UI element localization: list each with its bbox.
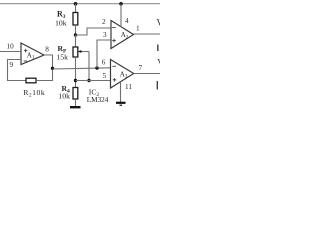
wire R4 bottom to ground bbox=[75, 99, 77, 106]
wire A1 output node to A3 pin6 bbox=[53, 68, 112, 69]
A2 minus sign bbox=[112, 27, 116, 29]
wire R3 bottom to node X bbox=[75, 25, 77, 35]
svg-text:10k: 10k bbox=[55, 18, 67, 27]
RP wiper arrow bbox=[80, 51, 89, 53]
svg-text:11: 11 bbox=[125, 83, 132, 91]
resistor R3 bbox=[73, 13, 78, 26]
svg-text:1: 1 bbox=[136, 25, 140, 33]
svg-text:LM324: LM324 bbox=[87, 96, 109, 104]
wire R2 to A1 output node bbox=[36, 68, 53, 80]
svg-text:2: 2 bbox=[102, 18, 106, 26]
wire A2 power pin 4 bbox=[120, 4, 122, 27]
potentiometer RP body bbox=[73, 47, 78, 57]
svg-text:5: 5 bbox=[103, 72, 107, 80]
junction RP/R4 node to pin5 wire bbox=[74, 79, 77, 82]
resistor R4 bbox=[73, 88, 78, 100]
svg-text:7: 7 bbox=[139, 64, 143, 72]
svg-text:V: V bbox=[157, 18, 161, 28]
wire pin6 node up to A2 pin3 bbox=[97, 40, 111, 68]
wire A3 power pin 11 to ground bbox=[120, 82, 122, 102]
svg-text:10: 10 bbox=[7, 43, 15, 51]
junction A1 output node bbox=[51, 67, 54, 70]
wire top supply rail bbox=[0, 3, 160, 5]
op-amp A1 bbox=[21, 43, 44, 65]
node junction at A2 pin4 top bbox=[119, 2, 123, 6]
wire RP bottom to R4 bbox=[75, 57, 77, 88]
svg-text:3: 3 bbox=[103, 31, 107, 39]
svg-text:4: 4 bbox=[125, 17, 129, 25]
wire node X down to RP bbox=[75, 35, 77, 47]
wire wiper down to pin5 node bbox=[88, 52, 90, 81]
wire node X to A2 pin2 bbox=[76, 28, 112, 35]
right edge glyph fragment lower bbox=[157, 81, 158, 90]
A3 minus sign bbox=[112, 65, 116, 67]
wire input to A1 pin 10 bbox=[0, 51, 21, 53]
ground under R4 bbox=[70, 106, 81, 108]
node junction at R3 top bbox=[74, 2, 78, 6]
wire A1 output pin 8 bbox=[44, 55, 53, 68]
A1 plus sign bbox=[24, 49, 28, 53]
svg-text:V: V bbox=[157, 57, 160, 67]
svg-text:9: 9 bbox=[10, 61, 14, 69]
op-amp A3 bbox=[111, 60, 134, 89]
wire A2 output pin 1 bbox=[134, 33, 161, 35]
wire pin5 node to A3 pin 5 bbox=[76, 80, 112, 82]
A3 plus sign bbox=[113, 78, 117, 82]
svg-text:15k: 15k bbox=[56, 52, 68, 61]
svg-text:8: 8 bbox=[45, 46, 49, 54]
A2 plus sign bbox=[112, 39, 116, 43]
junction pin6/pin3 node bbox=[95, 66, 98, 69]
svg-text:6: 6 bbox=[102, 58, 106, 66]
right edge glyph fragment bbox=[157, 45, 159, 52]
wire rail to R3 bbox=[75, 4, 77, 13]
op-amp A2 bbox=[111, 21, 134, 49]
wire A3 output pin 7 bbox=[134, 73, 160, 75]
wire A1 pin 9 feedback loop left bbox=[8, 60, 27, 81]
A1 minus sign bbox=[24, 60, 28, 62]
svg-text:10k: 10k bbox=[58, 91, 70, 100]
node X junction bbox=[74, 33, 77, 36]
ground under pin 11 bbox=[116, 102, 126, 104]
resistor R2 bbox=[26, 78, 36, 83]
junction wiper to pin5 wire bbox=[87, 79, 90, 82]
svg-text:R210k: R210k bbox=[23, 88, 45, 98]
